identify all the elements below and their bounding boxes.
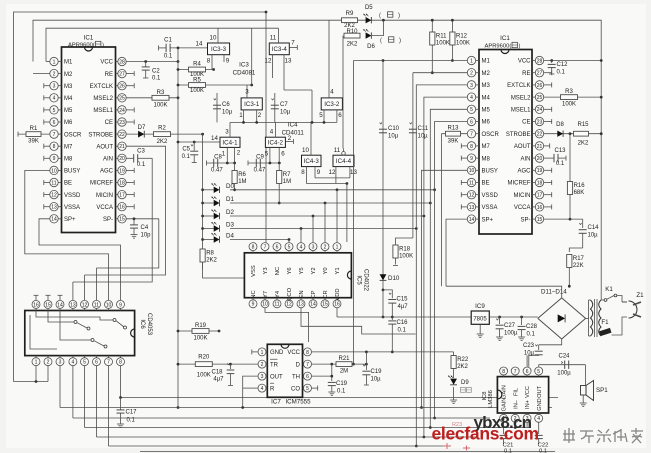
svg-text:M5: M5 <box>64 108 73 114</box>
wire VCC(28) to C2 node and x178 bus <box>126 61 178 63</box>
svg-text:4: 4 <box>300 245 303 251</box>
svg-text:20: 20 <box>537 156 543 162</box>
pin 7 Y3 of IC5 <box>264 251 266 253</box>
svg-text:C14: C14 <box>588 225 600 231</box>
svg-text:elecfans.com: elecfans.com <box>432 424 539 444</box>
pin 17 MICIN of IC1(play) <box>532 194 535 196</box>
svg-text:GND: GND <box>537 398 543 410</box>
svg-text:8: 8 <box>301 169 305 176</box>
wire riser IC6 pin11 <box>96 268 98 300</box>
svg-text:3: 3 <box>312 245 315 251</box>
svg-text:7: 7 <box>264 245 267 251</box>
pin 26 EXTCLK of IC1(rec) <box>116 85 118 87</box>
svg-text:R15: R15 <box>577 122 589 128</box>
svg-text:0.1: 0.1 <box>137 162 146 168</box>
svg-text:AIN: AIN <box>103 157 113 163</box>
svg-text:4µ7: 4µ7 <box>398 304 409 310</box>
svg-text:16: 16 <box>119 205 125 211</box>
wire VCC' to right rail <box>544 60 602 62</box>
terminal stub AOUT' <box>544 145 550 147</box>
svg-text:0.1: 0.1 <box>539 449 547 453</box>
wire BUSY loop down-left <box>25 170 109 300</box>
terminal stub BE <box>44 182 50 184</box>
svg-text:26: 26 <box>119 84 125 90</box>
wire riser IC6 pin12 <box>84 275 86 300</box>
pin 16 VCCA of IC1(play) <box>532 206 535 208</box>
pin 14 SP+ of IC1(play) <box>476 218 479 220</box>
svg-text:IC1: IC1 <box>84 35 94 42</box>
svg-text:2: 2 <box>324 245 327 251</box>
svg-text:TR: TR <box>270 362 279 368</box>
svg-text:24: 24 <box>537 107 543 113</box>
wire BUSY' bus <box>422 170 468 407</box>
IC8 LM386 body <box>497 377 548 413</box>
capacitor C16 0.1 <box>382 290 384 317</box>
svg-text:C19: C19 <box>336 381 348 387</box>
pin 2 Y0 of IC5 <box>324 251 326 253</box>
wire M4' bus <box>424 97 467 437</box>
svg-text:2: 2 <box>53 72 56 78</box>
svg-text:VSSA: VSSA <box>64 205 80 211</box>
svg-text:C12: C12 <box>557 62 569 68</box>
svg-text:12: 12 <box>329 169 336 176</box>
pin 20 AIN of IC1(play) <box>532 157 535 159</box>
svg-text:Y3: Y3 <box>263 267 269 274</box>
terminal stub M4 <box>44 97 50 99</box>
svg-text:C4: C4 <box>141 225 149 231</box>
svg-text:7805: 7805 <box>473 317 487 323</box>
wire gate outputs join <box>315 177 350 179</box>
pin 6 NC of IC5 <box>276 251 278 253</box>
svg-text:16: 16 <box>334 302 340 308</box>
svg-text:19: 19 <box>537 168 543 174</box>
pin 4 R of IC7 <box>266 387 267 389</box>
svg-text:100K: 100K <box>190 88 204 94</box>
pin 28 VCC of IC1(play) <box>532 60 535 62</box>
gate IC3-4 <box>269 43 289 55</box>
terminal stub EXTCLK' <box>544 84 552 86</box>
svg-text:13: 13 <box>70 302 76 308</box>
svg-text:24: 24 <box>119 108 125 114</box>
svg-text:7: 7 <box>514 369 517 375</box>
svg-text:M1: M1 <box>64 60 73 66</box>
svg-text:0.1: 0.1 <box>504 449 512 453</box>
terminal stub MICIN <box>126 194 134 196</box>
svg-text:2K2: 2K2 <box>347 42 358 48</box>
svg-text:5: 5 <box>288 245 291 251</box>
diode D7 and resistor R2 2K2 on STROBE <box>126 133 202 135</box>
capacitor C19 0.1 <box>331 364 333 381</box>
svg-text:0.47: 0.47 <box>254 168 266 174</box>
LED D5 <box>366 17 372 23</box>
wire IC8 pin3 stub <box>526 422 528 427</box>
svg-text:8: 8 <box>53 144 56 150</box>
svg-text:IC4-1: IC4-1 <box>222 140 238 147</box>
svg-text:C6: C6 <box>222 102 230 108</box>
svg-text:IC1: IC1 <box>500 35 510 42</box>
svg-text:12: 12 <box>82 302 88 308</box>
svg-text:10: 10 <box>51 168 57 174</box>
wire IC7 pin2 TR to C18/R20 <box>231 363 258 365</box>
pin 11 of IC6 (top) <box>96 309 98 311</box>
pin 8 M7 of IC1(play) <box>476 145 479 147</box>
pin 1 of IC6 (bottom) <box>35 356 37 358</box>
svg-text:2: 2 <box>261 362 264 368</box>
svg-text:C13: C13 <box>554 148 566 154</box>
svg-text:23: 23 <box>537 119 543 125</box>
pin 1 Y1 of IC5 <box>336 251 338 253</box>
wire IC6 internal routes <box>30 315 57 349</box>
pin 25 MSEL2 of IC1(play) <box>532 96 535 98</box>
svg-text:100K: 100K <box>153 102 167 108</box>
svg-text:11: 11 <box>274 302 279 308</box>
switch S3 inside IC6 <box>104 319 113 321</box>
svg-text:M4: M4 <box>482 95 491 101</box>
capacitor C24 100u <box>539 364 586 366</box>
svg-text:1: 1 <box>261 350 264 356</box>
IC1' APR9600(play) body <box>479 50 532 235</box>
resistor R6 1M <box>234 163 236 190</box>
pin 9 M8 of IC1(rec) <box>58 157 61 159</box>
svg-text:2M: 2M <box>340 369 348 375</box>
svg-text:AOUT: AOUT <box>96 144 113 150</box>
LED D0 <box>201 188 204 191</box>
svg-text:12: 12 <box>265 58 272 65</box>
pin 16 VDD of IC5 <box>336 298 338 300</box>
pin 4 Y5 of IC5 <box>300 251 302 253</box>
svg-text:D9: D9 <box>461 380 469 386</box>
svg-text:R8: R8 <box>206 250 214 256</box>
svg-text:VSSD: VSSD <box>64 193 81 199</box>
svg-text:5: 5 <box>265 151 269 158</box>
svg-text:3: 3 <box>261 374 264 380</box>
terminal stub VSSA <box>44 206 50 208</box>
capacitor C8 0.47 <box>207 162 236 164</box>
pin 23 CE of IC1(play) <box>532 121 535 123</box>
capacitor C21 0.1 <box>500 434 508 436</box>
pin 2 M2 of IC1(play) <box>476 72 479 74</box>
svg-text:C18: C18 <box>211 370 223 376</box>
resistor R12 100K <box>451 20 453 60</box>
pin 4 M4 of IC1(rec) <box>58 97 61 99</box>
pin 1 GND of IC7 <box>266 351 267 353</box>
pin 8 VSS of IC5 <box>252 251 254 253</box>
svg-text:7: 7 <box>306 362 309 368</box>
wire M1 to T3 rail <box>46 61 50 63</box>
pin 7 of IC6 (bottom) <box>108 356 110 358</box>
svg-text:C1: C1 <box>164 38 172 44</box>
svg-text:D6: D6 <box>367 44 375 50</box>
svg-text:0.1: 0.1 <box>557 70 566 76</box>
svg-text:VCCA: VCCA <box>96 205 113 211</box>
wire C10/D10 column <box>382 61 384 290</box>
resistor R13 39K <box>441 133 467 135</box>
svg-text:9: 9 <box>53 156 56 162</box>
svg-text:D1: D1 <box>226 196 234 203</box>
svg-text:4µ7: 4µ7 <box>213 377 224 383</box>
resistor R3' 100K on MSEL2' <box>544 96 602 98</box>
svg-text:9: 9 <box>470 156 473 162</box>
svg-text:8: 8 <box>306 350 309 356</box>
wire Y0 riser <box>324 203 326 242</box>
svg-text:14: 14 <box>196 41 203 48</box>
svg-text:VSSA: VSSA <box>482 205 498 211</box>
svg-text:D10: D10 <box>388 275 400 282</box>
svg-text:SP1: SP1 <box>596 387 608 394</box>
svg-text:27: 27 <box>119 72 125 78</box>
wire bridge bottom to C23 rail <box>539 339 562 345</box>
svg-text:MICIN: MICIN <box>514 193 531 199</box>
pin 10 Y7 of IC5 <box>264 298 266 300</box>
svg-text:M7: M7 <box>64 144 73 150</box>
svg-text:VCC: VCC <box>518 59 531 65</box>
wire 7805 out to bridge <box>489 316 538 318</box>
svg-text:C15: C15 <box>397 297 409 303</box>
wire SP+' down <box>446 219 467 286</box>
pin 24 MSEL1 of IC1(rec) <box>116 109 118 111</box>
LED D6 <box>366 32 372 38</box>
svg-text:5: 5 <box>470 107 473 113</box>
ground stubs above IC6 pins <box>35 295 37 300</box>
pin 13 VSSA of IC1(rec) <box>58 206 61 208</box>
capacitor C15 4u7 <box>383 290 392 298</box>
pin 3 of IC6 (bottom) <box>59 356 61 358</box>
svg-text:2K2: 2K2 <box>578 141 589 147</box>
svg-text:SP-: SP- <box>103 217 113 223</box>
capacitor C1 0.1 <box>159 47 167 49</box>
svg-text:16: 16 <box>537 205 543 211</box>
svg-text:C2: C2 <box>152 69 160 75</box>
svg-text:IC4-2: IC4-2 <box>268 140 284 147</box>
pin 17 MICIN of IC1(rec) <box>116 194 118 196</box>
svg-text:M8: M8 <box>64 157 73 163</box>
svg-text:M3: M3 <box>64 84 73 90</box>
svg-text:2: 2 <box>258 112 262 119</box>
svg-text:4: 4 <box>72 360 75 366</box>
pin 11 Y4 of IC5 <box>276 298 278 300</box>
wire Y6 riser <box>288 240 290 243</box>
resistor R11 100K <box>431 20 433 72</box>
IC1 APR9600(rec) body <box>62 47 116 233</box>
svg-text:25: 25 <box>119 96 125 102</box>
svg-text:R18: R18 <box>399 246 411 252</box>
svg-text:2: 2 <box>47 360 50 366</box>
svg-text:Y2: Y2 <box>311 267 317 274</box>
svg-text:3: 3 <box>470 83 473 89</box>
svg-text:15: 15 <box>537 217 543 223</box>
wire SP- and capacitor C4 10p <box>126 218 159 220</box>
speaker SP1 <box>585 365 587 386</box>
svg-text:2K2: 2K2 <box>457 364 468 370</box>
svg-text:2: 2 <box>470 71 473 77</box>
capacitor C6 10u <box>216 93 218 122</box>
resistor R16 68K <box>569 134 571 219</box>
IC6 CD4053 body <box>25 311 135 356</box>
svg-text:C11: C11 <box>418 126 429 132</box>
gate IC4-4 <box>333 155 354 166</box>
svg-text:28: 28 <box>537 58 543 64</box>
svg-text:D4: D4 <box>226 233 234 240</box>
svg-text:C17: C17 <box>126 410 138 416</box>
wire top rail T1 <box>14 12 267 382</box>
pin 10 of IC6 (top) <box>108 309 110 311</box>
svg-text:GAIN: GAIN <box>502 385 508 399</box>
wire IC8 pin5 OUT to C24 <box>538 365 540 367</box>
svg-text:IC3: IC3 <box>239 62 249 69</box>
bridge rectifier D11-D14 <box>538 298 586 339</box>
pin 9 of IC6 (top) <box>120 309 122 311</box>
wire M6' bus <box>435 122 468 419</box>
svg-text:GND: GND <box>270 350 284 356</box>
svg-text:10µ: 10µ <box>388 134 399 140</box>
svg-text:ICM7555: ICM7555 <box>285 399 311 406</box>
svg-text:QCO: QCO <box>287 287 293 301</box>
svg-text:M2: M2 <box>64 72 73 78</box>
svg-text:MICIN: MICIN <box>96 193 113 199</box>
svg-text:11: 11 <box>51 180 56 186</box>
svg-text:28: 28 <box>119 59 125 65</box>
svg-text:IC3-3: IC3-3 <box>211 46 227 53</box>
svg-text:CO: CO <box>291 386 300 392</box>
capacitor C11 10u <box>412 73 414 238</box>
pin 5 Y6 of IC5 <box>288 251 290 253</box>
wire D2 row to Y2 and M4 bus <box>230 215 424 217</box>
svg-text:100K: 100K <box>197 373 211 379</box>
terminal stub BE' <box>461 182 467 184</box>
wire bottom rail3 <box>85 427 531 429</box>
pin 5 M5 of IC1(play) <box>476 108 479 110</box>
svg-text:C28: C28 <box>526 324 538 330</box>
pin 4 GND of IC8 <box>538 413 540 414</box>
terminal stub CE' <box>544 121 552 123</box>
svg-text:5: 5 <box>319 112 323 119</box>
svg-text:5: 5 <box>537 369 540 375</box>
terminal stub M3 <box>44 85 50 87</box>
wire IC6 pin5 to rail3 <box>84 366 86 428</box>
svg-text:C24: C24 <box>558 354 570 360</box>
svg-text:R13: R13 <box>447 126 459 132</box>
wire LED bus vertical x=202.6 <box>202 134 204 248</box>
pin 22 STROBE of IC1(rec) <box>116 133 118 135</box>
pin 27 RE of IC1(rec) <box>116 73 118 75</box>
wire T1 rail to IC6 bottom pins <box>14 381 49 383</box>
pin 8 of IC6 (bottom) <box>120 356 122 358</box>
svg-text:15: 15 <box>322 302 328 308</box>
pin 6 M6 of IC1(rec) <box>58 121 61 123</box>
svg-text:CD4022: CD4022 <box>363 269 369 292</box>
svg-text:6: 6 <box>470 119 473 125</box>
svg-text:4: 4 <box>537 416 540 422</box>
svg-text:CP: CP <box>311 290 317 298</box>
wire SP-' to C14 <box>544 218 583 220</box>
svg-text:EXTCLK: EXTCLK <box>90 84 113 90</box>
resistor R22 2K2 <box>453 352 455 356</box>
pin 4 M4 of IC1(play) <box>476 96 479 98</box>
svg-text:R4: R4 <box>193 62 201 68</box>
svg-text:C7: C7 <box>280 102 288 108</box>
svg-text:AIN: AIN <box>520 156 530 162</box>
svg-text:13: 13 <box>469 205 475 211</box>
svg-text:OSCR: OSCR <box>482 132 500 138</box>
svg-text:6: 6 <box>53 120 56 126</box>
pin 7 D of IC7 <box>303 363 304 365</box>
svg-text:6: 6 <box>306 374 309 380</box>
svg-text:100K: 100K <box>436 40 450 46</box>
wire D3 row to Y5 and M3 bus <box>230 228 416 230</box>
pin 12 VSSD of IC1(rec) <box>58 194 61 196</box>
svg-text:0.1: 0.1 <box>127 418 136 424</box>
wire IC6 pin3 to rail1 <box>59 366 61 408</box>
svg-text:R11: R11 <box>436 33 447 39</box>
pin 3 M3 of IC1(rec) <box>58 85 61 87</box>
svg-text:M8: M8 <box>482 156 491 162</box>
svg-text:M3: M3 <box>482 83 491 89</box>
wire top rail T2 with right-side drop <box>33 20 601 300</box>
svg-text:IN–: IN– <box>513 399 519 409</box>
svg-text:5: 5 <box>53 108 56 114</box>
pin 1 M1 of IC1(rec) <box>58 61 61 63</box>
wire M5' bus <box>430 109 467 427</box>
svg-text:R3: R3 <box>157 90 165 96</box>
gate IC3-1 <box>241 98 262 110</box>
terminal stub VSSD' <box>461 194 467 196</box>
switch K1 <box>601 299 604 301</box>
pin 12 of IC6 (top) <box>84 309 86 311</box>
svg-text:D11–D14: D11–D14 <box>541 289 567 296</box>
wire M1' drop x=352.5 <box>354 60 384 62</box>
svg-text:10µ: 10µ <box>371 377 382 383</box>
svg-text:100K: 100K <box>562 102 576 108</box>
diode D8 and resistor R15 2K2 on STROBE' <box>544 133 602 135</box>
svg-text:21: 21 <box>119 144 125 150</box>
wire M3' bus <box>416 85 467 446</box>
IC7 ICM7555 body <box>267 344 302 397</box>
pin 16 VCCA of IC1(rec) <box>116 206 118 208</box>
svg-text:6: 6 <box>276 245 279 251</box>
svg-text:0.1: 0.1 <box>527 332 536 338</box>
svg-text:4: 4 <box>53 96 56 102</box>
svg-text:0.1: 0.1 <box>398 328 407 334</box>
svg-text:2: 2 <box>288 135 292 142</box>
terminal stub EXTCLK <box>126 85 134 87</box>
svg-text:RE: RE <box>105 72 113 78</box>
svg-text:10µ: 10µ <box>418 134 429 140</box>
wire Y5 riser <box>300 229 302 243</box>
svg-text:R21: R21 <box>338 356 350 362</box>
terminal stub VSSA' <box>461 206 467 208</box>
resistor R4 100K <box>178 69 214 71</box>
capacitor C5 0.1 <box>178 141 212 143</box>
svg-text:R2: R2 <box>158 126 166 132</box>
terminal stub VCCA <box>126 206 134 208</box>
IC5 CD4022 body <box>244 253 351 298</box>
svg-text:IC4-4: IC4-4 <box>336 158 352 165</box>
svg-text:K1: K1 <box>605 286 613 293</box>
terminal stub M8 <box>44 157 50 159</box>
svg-text:15: 15 <box>45 302 51 308</box>
pin 14 of IC6 (top) <box>59 309 61 311</box>
svg-text:OUT: OUT <box>270 374 283 380</box>
terminal stub AGC <box>126 169 134 171</box>
svg-text:VSS: VSS <box>251 265 257 277</box>
gate IC4-2 <box>265 137 285 147</box>
svg-text:C8: C8 <box>214 155 222 161</box>
wire bottom rail6 <box>140 451 555 453</box>
wire C21 stub <box>503 422 505 434</box>
svg-text:4: 4 <box>261 386 264 392</box>
svg-text:25: 25 <box>537 95 543 101</box>
svg-text:14: 14 <box>51 217 57 223</box>
